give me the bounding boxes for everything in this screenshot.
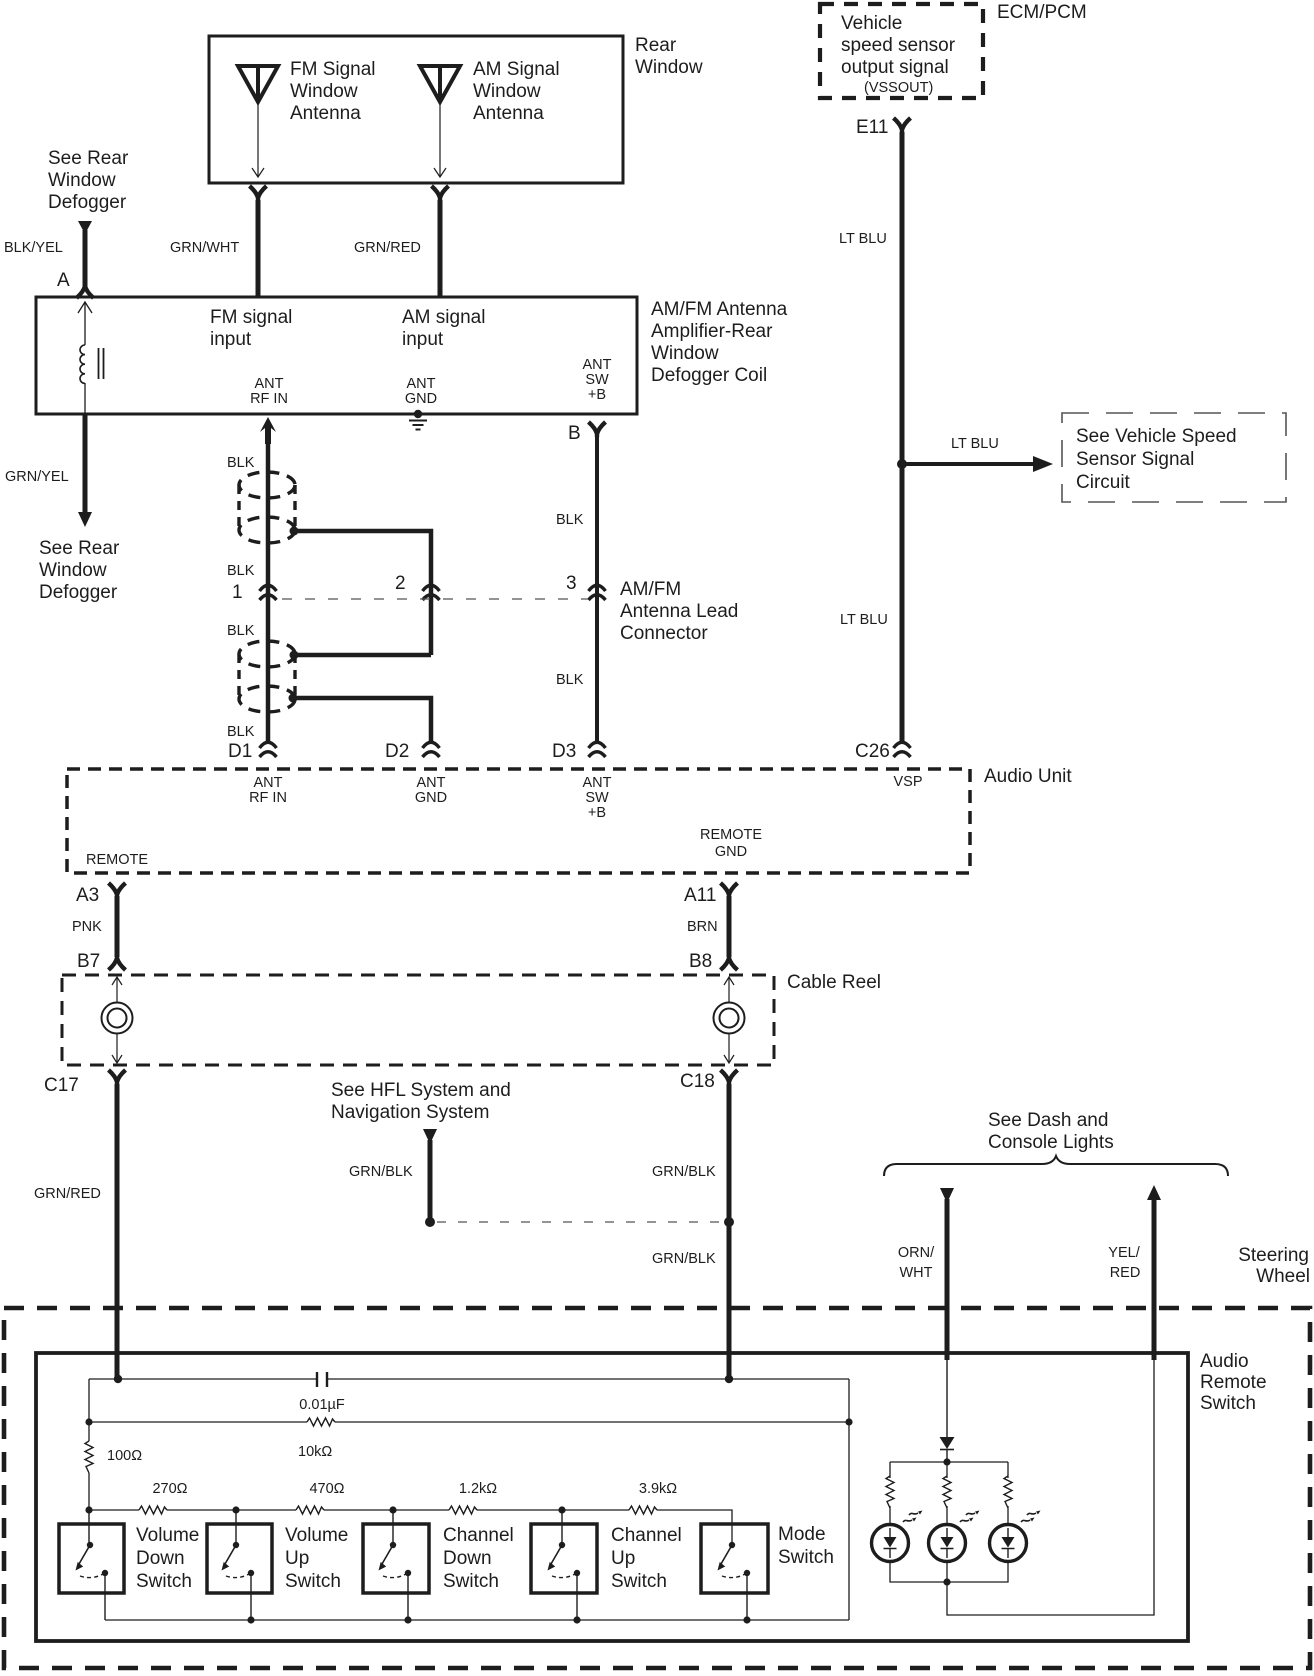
connector terminal C18 [680,1070,738,1092]
wire LT BLU branch arrow to vehicle speed sensor circuit [905,436,1053,472]
svg-text:3.9kΩ: 3.9kΩ [639,1481,677,1497]
node ground rail junction sw2 [247,1616,254,1623]
connector terminal D2 [385,741,440,762]
svg-text:Console Lights: Console Lights [988,1132,1114,1153]
svg-text:Audio: Audio [1200,1351,1249,1372]
svg-text:ANT: ANT [583,775,612,791]
svg-text:REMOTE: REMOTE [86,852,148,868]
wire right vertical to switch common [848,1379,850,1620]
svg-text:2: 2 [395,573,406,594]
wire BLK antenna switch +B [556,436,597,744]
resistor 100 ohm [85,1441,142,1473]
svg-text:LT BLU: LT BLU [839,231,887,247]
svg-text:BLK: BLK [227,563,255,579]
svg-text:Window: Window [651,343,719,364]
svg-text:Antenna: Antenna [290,103,361,124]
LED lamp right [990,1511,1041,1562]
svg-text:GRN/WHT: GRN/WHT [170,240,239,256]
node 10k rail left junction [85,1418,92,1425]
connector terminal below AM antenna [432,186,449,201]
connector terminal below FM antenna [250,186,267,201]
svg-text:Switch: Switch [285,1571,341,1592]
node ground rail junction sw4 [573,1616,580,1623]
svg-text:REMOTE: REMOTE [700,827,762,843]
svg-text:Window: Window [48,170,116,191]
connector terminal C26 [855,741,911,762]
box AM/FM Antenna Amplifier-Rear Window Defogger Coil [36,297,788,414]
svg-text:ANT: ANT [254,775,283,791]
node rail junction col3 [389,1506,396,1513]
wire GRN/RED AM antenna to amplifier [354,200,440,297]
wire internal from A to coil [78,302,92,345]
svg-text:GRN/BLK: GRN/BLK [349,1164,413,1180]
svg-text:Connector: Connector [620,623,708,644]
svg-text:Mode: Mode [778,1524,826,1545]
svg-text:speed sensor: speed sensor [841,35,956,56]
svg-text:BLK: BLK [227,455,255,471]
svg-text:Defogger: Defogger [39,582,118,603]
svg-text:Switch: Switch [778,1547,834,1568]
node 10k rail right junction [845,1418,852,1425]
svg-text:ANT: ANT [255,376,284,392]
svg-text:A: A [57,270,70,291]
resistor LED right [1004,1462,1012,1525]
svg-text:E11: E11 [856,117,888,138]
wire shield lower top tap [294,653,431,658]
box Audio Remote Switch [36,1351,1267,1641]
svg-text:10kΩ: 10kΩ [298,1444,332,1460]
connector terminal E11 [856,117,911,138]
switch Channel Down [363,1524,514,1620]
node LED cathode junction [943,1578,950,1585]
resistor 10k ohm [298,1418,335,1460]
node rail junction col2 [232,1506,239,1513]
svg-text:RED: RED [1110,1265,1141,1281]
svg-text:BLK: BLK [227,623,255,639]
svg-text:(VSSOUT): (VSSOUT) [864,80,933,96]
connector terminal A3 [76,883,126,906]
resistor LED left [886,1462,894,1525]
svg-text:GRN/YEL: GRN/YEL [5,469,69,485]
wire switch ground rail [105,1619,849,1621]
connector terminal D1 [228,741,277,762]
svg-text:A11: A11 [684,885,716,906]
node shield upper tap [290,527,299,536]
svg-text:AM/FM Antenna: AM/FM Antenna [651,299,788,320]
connector AM/FM antenna lead 3 [566,573,606,600]
shield coax lower [239,641,295,712]
svg-text:PNK: PNK [72,919,102,935]
connector terminal C17 [44,1070,126,1096]
svg-text:GND: GND [415,790,447,806]
resistor LED middle [943,1462,951,1525]
wire 10k ohm rail [89,1421,849,1423]
wire BLK/YEL from defogger [4,221,92,291]
svg-text:BLK: BLK [227,724,255,740]
svg-text:Window: Window [473,81,541,102]
wire GRN/BLK C18 to audio remote switch [652,1084,729,1379]
svg-text:BLK: BLK [556,512,584,528]
wire YEL/RED dash lights return [1108,1185,1161,1360]
wire GRN/WHT FM antenna to amplifier [170,200,258,297]
wire GRN/RED C17 to audio remote switch [34,1084,117,1379]
svg-text:3: 3 [566,573,577,594]
svg-text:GND: GND [405,391,437,407]
svg-text:Switch: Switch [136,1571,192,1592]
svg-text:Sensor Signal: Sensor Signal [1076,449,1194,470]
svg-text:See Rear: See Rear [48,148,129,169]
svg-text:BLK: BLK [556,672,584,688]
svg-text:Switch: Switch [1200,1393,1256,1414]
node ground rail junction sw5 [743,1616,750,1623]
resistor 270 ohm [139,1481,188,1514]
svg-text:VSP: VSP [893,774,922,790]
svg-text:GRN/BLK: GRN/BLK [652,1164,716,1180]
node LED anode junction [943,1458,950,1465]
svg-text:See Vehicle Speed: See Vehicle Speed [1076,426,1237,447]
svg-text:ANT: ANT [417,775,446,791]
svg-text:GRN/RED: GRN/RED [354,240,421,256]
svg-text:B7: B7 [77,951,100,972]
wire GRN/YEL to rear window defogger [5,415,92,527]
svg-text:B: B [568,423,581,444]
svg-text:BRN: BRN [687,919,718,935]
box ECM/PCM [820,2,1087,98]
svg-text:C17: C17 [44,1075,79,1096]
svg-text:AM signal: AM signal [402,307,485,328]
svg-text:Down: Down [443,1548,492,1569]
svg-text:output signal: output signal [841,57,949,78]
svg-text:Steering: Steering [1238,1245,1309,1266]
wire PNK remote [72,896,117,957]
svg-text:Switch: Switch [443,1571,499,1592]
svg-text:Audio Unit: Audio Unit [984,766,1072,787]
LED lamp middle [929,1511,980,1562]
svg-text:FM signal: FM signal [210,307,292,328]
note See HFL System and Navigation System [331,1080,511,1123]
node ground rail junction sw3 [404,1616,411,1623]
wire dashed HFL to C18 link [437,1221,722,1223]
svg-text:Volume: Volume [285,1525,348,1546]
svg-text:Switch: Switch [611,1571,667,1592]
node HFL junction [425,1217,435,1227]
svg-text:0.01µF: 0.01µF [299,1397,345,1413]
svg-text:D3: D3 [552,741,576,762]
wire capacitor rail [89,1378,849,1380]
svg-text:WHT: WHT [899,1265,932,1281]
svg-text:B8: B8 [689,951,712,972]
svg-text:Circuit: Circuit [1076,472,1131,493]
node rail junction col4 [558,1506,565,1513]
wire BLK ANT RF IN coax center [227,417,276,744]
svg-text:GND: GND [715,844,747,860]
box Cable Reel [62,972,881,1065]
box: Rear Window antenna enclosure [209,36,623,183]
svg-text:C18: C18 [680,1071,715,1092]
svg-text:Wheel: Wheel [1256,1266,1310,1287]
node C18 wire junction [724,1217,734,1227]
svg-text:Cable Reel: Cable Reel [787,972,881,993]
svg-text:RF IN: RF IN [250,391,288,407]
resistor 3.9k ohm [629,1481,677,1514]
switch Channel Up [531,1524,682,1620]
wire shield lower to D2 [293,698,431,744]
wire LED return to YEL/RED [947,1360,1154,1615]
wire LED cathode rail [890,1561,1008,1582]
svg-text:100Ω: 100Ω [107,1448,142,1464]
svg-text:SW: SW [585,372,609,388]
svg-text:D1: D1 [228,741,252,762]
coil cable reel left [102,977,133,1063]
svg-text:D2: D2 [385,741,409,762]
svg-text:YEL/: YEL/ [1108,1245,1140,1261]
LED lamp left [872,1511,923,1562]
svg-text:FM Signal: FM Signal [290,59,376,80]
svg-text:Up: Up [611,1548,635,1569]
shield coax upper [239,472,295,543]
node shield lower bottom tap [289,694,298,703]
resistor 1.2k ohm [449,1481,497,1514]
svg-text:GRN/RED: GRN/RED [34,1186,101,1202]
connector terminal B7 [77,951,126,972]
connector terminal A [77,283,94,298]
note See Dash and Console Lights [988,1110,1114,1153]
connector terminal B8 [689,951,738,972]
svg-text:Volume: Volume [136,1525,199,1546]
box Audio Unit [67,766,1072,873]
box Steering Wheel [4,1245,1310,1668]
svg-text:Channel: Channel [611,1525,682,1546]
coil cable reel right [714,977,745,1063]
connector terminal A11 [684,883,738,906]
svg-text:1.2kΩ: 1.2kΩ [459,1481,497,1497]
switch Mode [701,1524,834,1620]
svg-text:BLK/YEL: BLK/YEL [4,240,63,256]
svg-text:AM Signal: AM Signal [473,59,560,80]
svg-text:See Dash and: See Dash and [988,1110,1108,1131]
svg-text:1: 1 [232,582,243,603]
wire shield upper to connector 2 [294,531,431,655]
svg-text:+B: +B [588,805,606,821]
wire column stubs [89,1510,562,1545]
wire BRN remote ground [687,896,729,957]
svg-text:RF IN: RF IN [249,790,287,806]
antenna AM Signal Window Antenna [420,59,560,177]
antenna FM Signal Window Antenna [238,59,376,177]
box See Vehicle Speed Sensor Signal Circuit [1062,413,1286,502]
note See Rear Window Defogger (top left) [48,148,129,213]
svg-text:input: input [402,329,444,350]
wire dashed connector alignment line [282,598,588,600]
svg-text:470Ω: 470Ω [309,1481,344,1497]
connector AM/FM antenna lead 1 [232,582,277,603]
svg-text:AM/FM: AM/FM [620,579,681,600]
node GRN/BLK entry junction [725,1375,733,1383]
wire GRN/BLK HFL branch [349,1129,437,1218]
svg-text:Rear: Rear [635,35,677,56]
svg-text:LT BLU: LT BLU [951,436,999,452]
diode illumination feed [940,1360,955,1462]
connector terminal D3 [552,741,606,762]
svg-text:See Rear: See Rear [39,538,120,559]
svg-text:Remote: Remote [1200,1372,1267,1393]
svg-text:ORN/: ORN/ [898,1245,935,1261]
svg-text:Window: Window [39,560,107,581]
svg-text:Window: Window [635,57,703,78]
svg-text:C26: C26 [855,741,890,762]
svg-text:A3: A3 [76,885,99,906]
connector AM/FM antenna lead 2 [395,573,440,600]
wire LT BLU VSP signal (vertical) [839,132,902,744]
svg-text:Window: Window [290,81,358,102]
svg-text:Up: Up [285,1548,309,1569]
svg-text:ANT: ANT [583,357,612,373]
wire ORN/WHT dash lights feed [898,1188,954,1360]
svg-text:Antenna: Antenna [473,103,544,124]
node shield lower top tap [290,651,299,660]
svg-text:ECM/PCM: ECM/PCM [997,2,1087,23]
wire LED anode rail [890,1461,1008,1463]
svg-text:input: input [210,329,252,350]
svg-text:Navigation System: Navigation System [331,1102,489,1123]
inductor defogger coil [80,345,104,414]
note See Rear Window Defogger (left middle) [39,538,120,603]
wire left branch vertical [88,1379,90,1510]
svg-text:Defogger: Defogger [48,192,127,213]
svg-text:Vehicle: Vehicle [841,13,902,34]
label AM/FM Antenna Lead Connector [620,579,738,644]
node junction on LT BLU wire [897,459,907,469]
svg-text:ANT: ANT [407,376,436,392]
svg-text:Down: Down [136,1548,185,1569]
connector terminal B [568,422,606,444]
brace dash and console lights [884,1156,1228,1176]
svg-text:SW: SW [585,790,609,806]
svg-text:LT BLU: LT BLU [840,612,888,628]
svg-text:See HFL System and: See HFL System and [331,1080,511,1101]
switch Volume Up [207,1524,348,1620]
svg-text:Antenna Lead: Antenna Lead [620,601,738,622]
svg-text:270Ω: 270Ω [152,1481,187,1497]
ground symbol ANT GND [409,410,427,430]
svg-text:Defogger Coil: Defogger Coil [651,365,767,386]
node GRN/RED entry junction [114,1375,122,1383]
wire switch resistor rail [89,1510,732,1545]
svg-text:+B: +B [588,387,606,403]
switch Volume Down [59,1524,199,1620]
resistor 470 ohm [296,1481,345,1514]
svg-text:GRN/BLK: GRN/BLK [652,1251,716,1267]
node rail junction col1 [85,1506,92,1513]
svg-text:Amplifier-Rear: Amplifier-Rear [651,321,773,342]
capacitor 0.01uF [299,1372,345,1413]
svg-text:Channel: Channel [443,1525,514,1546]
